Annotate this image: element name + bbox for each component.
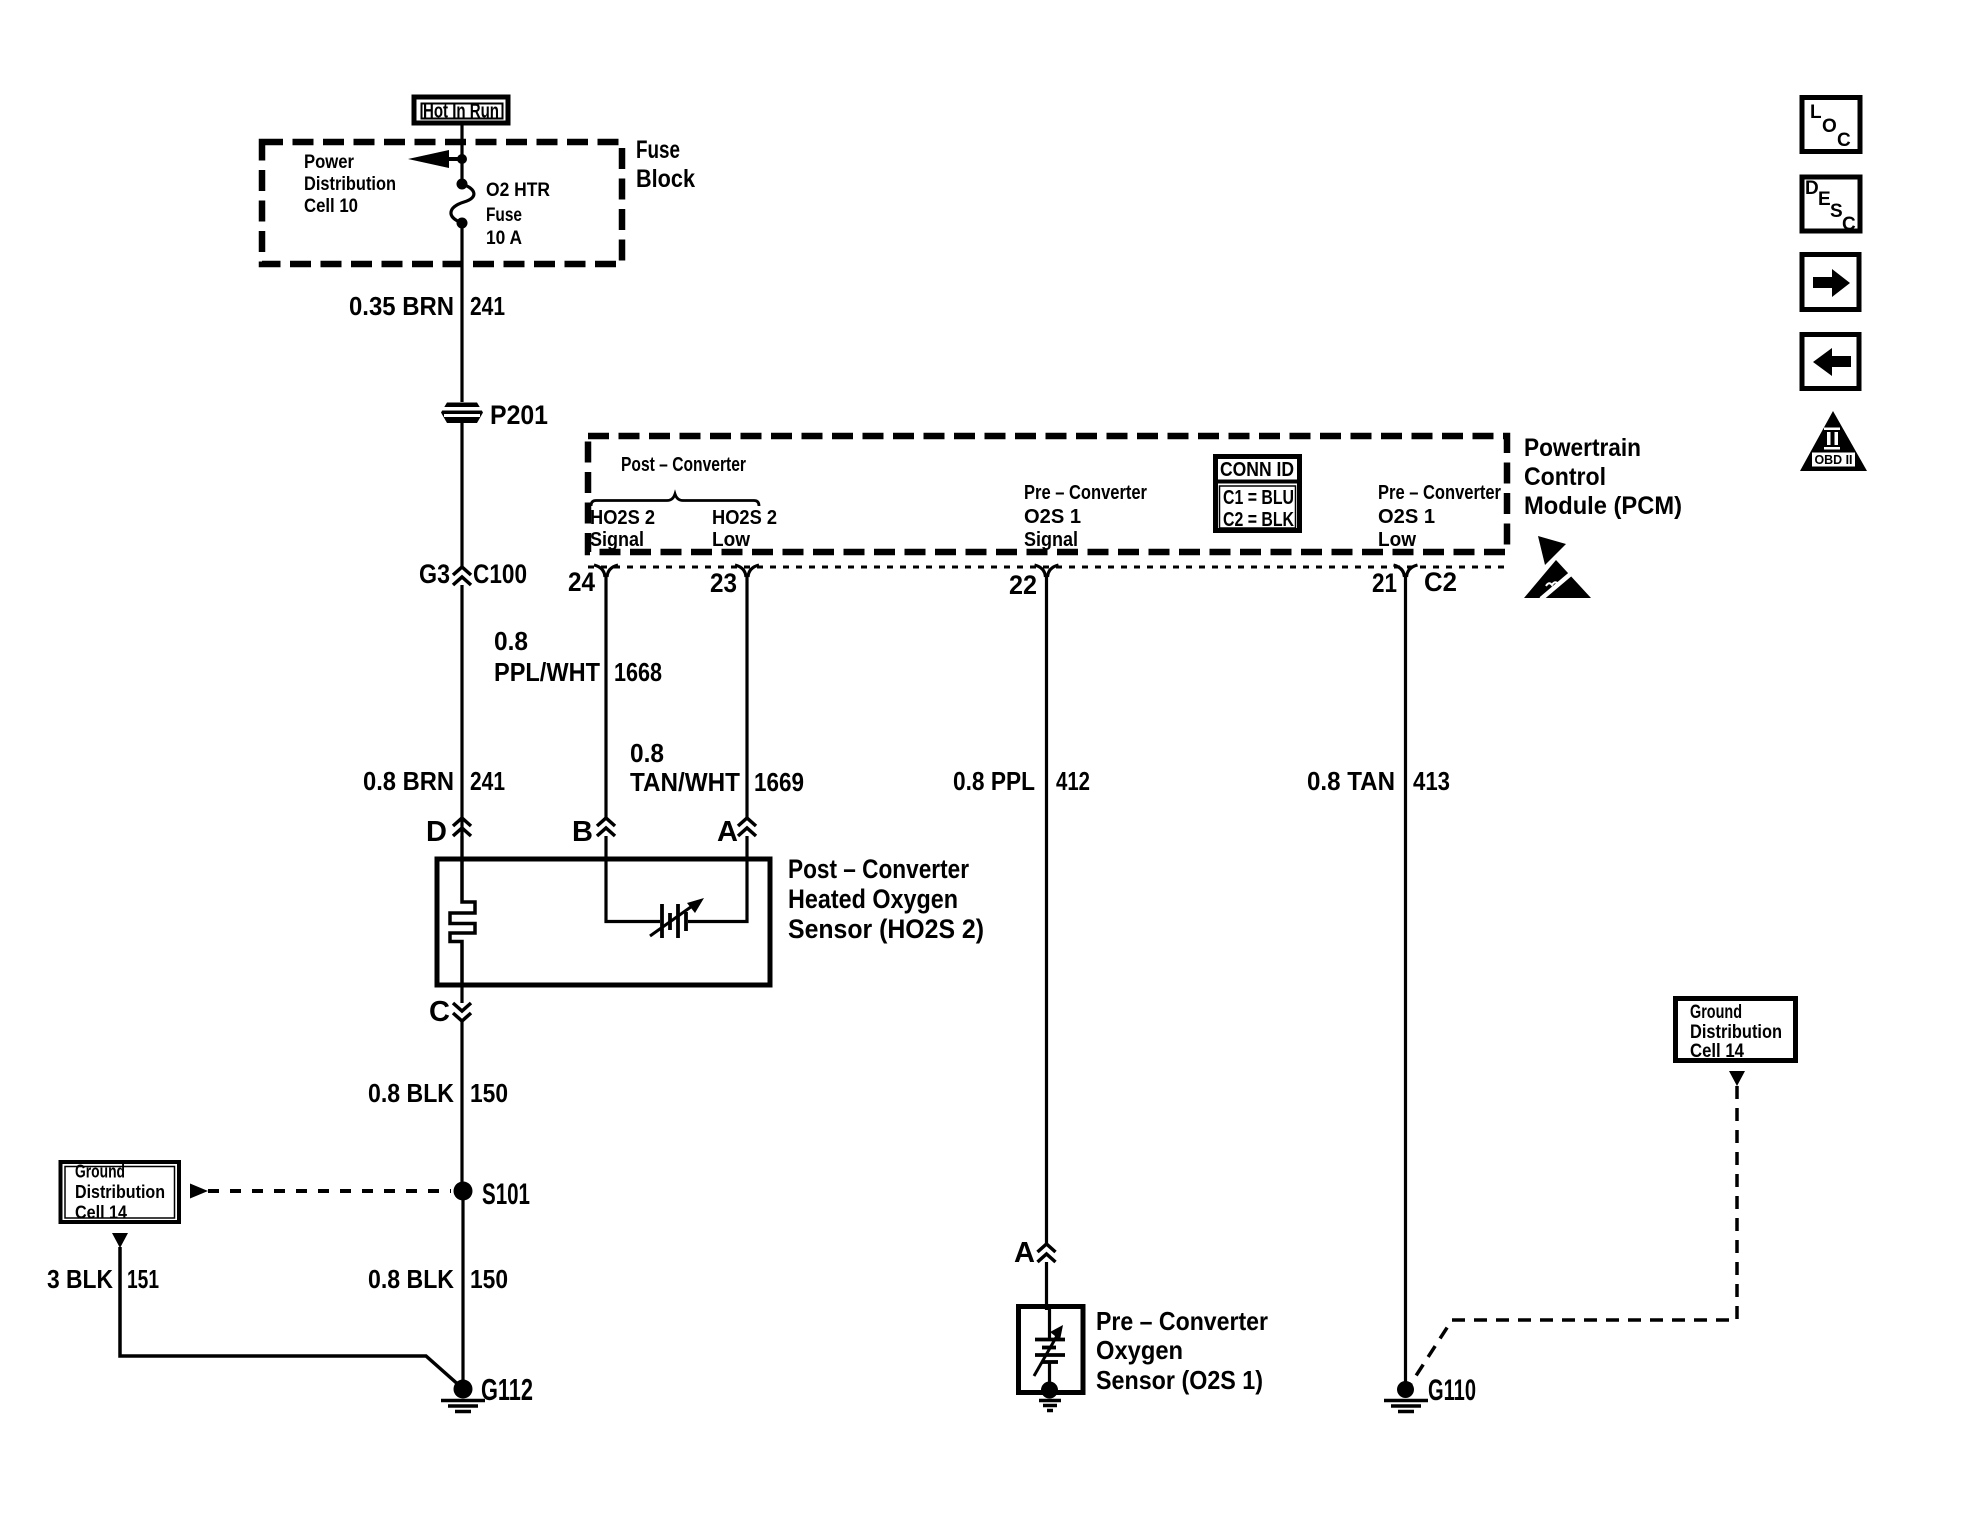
- PCM dashed box: [588, 436, 1507, 552]
- wire 3 BLK 151 to G112: [120, 1247, 461, 1387]
- wire B into box: [604, 836, 607, 862]
- svg-text:Block: Block: [636, 165, 695, 193]
- wire from Hot In Run into fuse block: [460, 124, 463, 184]
- icon DESC box: [1802, 177, 1860, 235]
- sensor element inside HO2S 2: [606, 862, 747, 938]
- svg-text:Low: Low: [1378, 529, 1416, 551]
- svg-text:Distribution: Distribution: [1690, 1022, 1782, 1043]
- down arrow below left cell box: [112, 1233, 128, 1248]
- connector G3 C100: [419, 559, 527, 589]
- svg-text:1669: 1669: [754, 767, 804, 797]
- svg-text:Ground: Ground: [1690, 1002, 1742, 1023]
- svg-text:C100: C100: [473, 559, 527, 589]
- wire C100 to sensor box: [460, 585, 463, 860]
- ground distribution cell 14 box (right): [1676, 999, 1796, 1063]
- ground G112: [441, 1372, 533, 1412]
- wire pin 22 down: [1045, 574, 1048, 1244]
- svg-text:Cell 14: Cell 14: [1690, 1041, 1744, 1062]
- svg-text:Powertrain: Powertrain: [1524, 434, 1641, 462]
- wire pin 24 down: [604, 574, 607, 818]
- svg-text:A: A: [717, 816, 738, 848]
- svg-text:C1 = BLU: C1 = BLU: [1223, 487, 1294, 509]
- svg-text:Cell 14: Cell 14: [75, 1202, 128, 1223]
- svg-text:E: E: [1818, 189, 1831, 210]
- wire C to S101: [460, 985, 463, 1003]
- heater element inside HO2S 2: [450, 859, 475, 985]
- svg-text:G112: G112: [481, 1372, 533, 1407]
- svg-text:Distribution: Distribution: [304, 173, 396, 195]
- svg-text:0.8: 0.8: [630, 738, 664, 768]
- svg-text:412: 412: [1056, 766, 1090, 796]
- svg-text:O2S 1: O2S 1: [1024, 506, 1081, 528]
- svg-text:Heated Oxygen: Heated Oxygen: [788, 884, 958, 914]
- svg-text:Power: Power: [304, 151, 354, 173]
- svg-text:HO2S 2: HO2S 2: [590, 507, 655, 529]
- svg-text:S: S: [1830, 201, 1843, 222]
- svg-text:Sensor (HO2S 2): Sensor (HO2S 2): [788, 914, 984, 944]
- wire pin 23 down: [745, 574, 748, 818]
- connector pin D: [426, 816, 471, 848]
- wire A into box: [745, 836, 748, 862]
- svg-text:PPL/WHT: PPL/WHT: [494, 657, 600, 687]
- svg-text:24: 24: [568, 567, 595, 597]
- svg-text:Module (PCM): Module (PCM): [1524, 492, 1682, 520]
- svg-text:C2: C2: [1424, 567, 1457, 597]
- svg-text:Signal: Signal: [590, 529, 644, 551]
- svg-text:D: D: [426, 816, 447, 848]
- svg-text:A: A: [1014, 1237, 1035, 1269]
- svg-text:0.8 BLK: 0.8 BLK: [368, 1078, 454, 1108]
- sensor element inside O2S 1: [1034, 1306, 1065, 1385]
- connector pin A: [717, 816, 756, 848]
- grommet P201: [441, 400, 548, 430]
- svg-text:151: 151: [127, 1264, 159, 1294]
- dashed reference line to S101: [208, 1189, 451, 1193]
- svg-text:Cell 10: Cell 10: [304, 195, 358, 217]
- svg-text:241: 241: [470, 766, 505, 796]
- svg-text:Post – Converter: Post – Converter: [621, 454, 746, 476]
- svg-text:1668: 1668: [614, 657, 662, 687]
- svg-text:G3: G3: [419, 559, 450, 589]
- svg-text:Fuse: Fuse: [486, 204, 522, 226]
- svg-text:413: 413: [1413, 766, 1450, 796]
- ground at O2S 1: [1039, 1382, 1061, 1411]
- svg-text:0.8: 0.8: [494, 626, 528, 656]
- ground distribution cell 14 box (left): [61, 1161, 180, 1223]
- svg-text:22: 22: [1009, 570, 1037, 600]
- pin 21 connector: [1372, 565, 1418, 598]
- pin 22 connector: [1009, 565, 1059, 600]
- brace under Post-Converter: [591, 494, 759, 506]
- svg-text:0.8 BLK: 0.8 BLK: [368, 1264, 454, 1294]
- svg-text:CONN ID: CONN ID: [1220, 459, 1294, 481]
- pin 23 connector: [710, 565, 759, 598]
- svg-text:HO2S 2: HO2S 2: [712, 507, 777, 529]
- svg-text:Pre – Converter: Pre – Converter: [1378, 482, 1501, 504]
- connector pin A (O2S 1): [1014, 1237, 1055, 1269]
- svg-text:TAN/WHT: TAN/WHT: [630, 767, 740, 797]
- pin 24 connector: [568, 565, 618, 597]
- svg-text:21: 21: [1372, 568, 1397, 598]
- O2S 1 sensor box: [1019, 1307, 1084, 1393]
- svg-text:Low: Low: [712, 529, 750, 551]
- svg-text:10 A: 10 A: [486, 227, 522, 249]
- arrowhead from left cell box: [190, 1184, 208, 1199]
- wire A into O2S 1 box: [1045, 1262, 1048, 1310]
- icon OBD II triangle: [1800, 411, 1867, 471]
- svg-text:0.8 PPL: 0.8 PPL: [953, 766, 1035, 796]
- svg-text:Sensor (O2S 1): Sensor (O2S 1): [1096, 1365, 1263, 1395]
- svg-text:L: L: [1810, 102, 1822, 123]
- svg-text:OBD II: OBD II: [1815, 452, 1853, 467]
- svg-text:0.8 BRN: 0.8 BRN: [363, 766, 454, 796]
- wire pin 21 down to G110: [1404, 574, 1407, 1386]
- HO2S 2 sensor box: [437, 859, 770, 985]
- svg-text:23: 23: [710, 568, 737, 598]
- splice S101: [454, 1178, 531, 1211]
- svg-text:B: B: [572, 816, 593, 848]
- arrow to Power Distribution: [408, 150, 467, 168]
- svg-text:Post – Converter: Post – Converter: [788, 854, 969, 884]
- svg-text:C2 = BLK: C2 = BLK: [1223, 509, 1294, 531]
- icon back arrow box: [1802, 335, 1859, 389]
- wire S101 to G112: [461, 1191, 464, 1389]
- svg-text:O2S 1: O2S 1: [1378, 506, 1435, 528]
- svg-text:P201: P201: [490, 400, 548, 430]
- svg-text:O: O: [1822, 116, 1837, 137]
- fuse block dashed box: [262, 142, 622, 264]
- wire D into box: [460, 836, 463, 862]
- connector pin C: [429, 996, 471, 1028]
- svg-text:Pre – Converter: Pre – Converter: [1096, 1306, 1268, 1336]
- ground G110: [1384, 1374, 1476, 1412]
- svg-text:Oxygen: Oxygen: [1096, 1335, 1183, 1365]
- svg-text:Pre – Converter: Pre – Converter: [1024, 482, 1147, 504]
- svg-text:3 BLK: 3 BLK: [47, 1264, 113, 1294]
- svg-text:C: C: [1837, 130, 1851, 151]
- down arrow below right cell box: [1729, 1071, 1745, 1086]
- dashed reference wire to G110: [1410, 1086, 1737, 1385]
- fuse "O2 HTR Fuse 10 A": [451, 179, 474, 229]
- svg-text:150: 150: [470, 1264, 508, 1294]
- svg-text:Fuse: Fuse: [636, 136, 680, 164]
- wire P201 to C100: [460, 423, 463, 566]
- svg-text:Signal: Signal: [1024, 529, 1078, 551]
- svg-text:D: D: [1805, 178, 1819, 199]
- svg-text:Ground: Ground: [75, 1161, 125, 1182]
- svg-text:S101: S101: [482, 1178, 530, 1211]
- svg-text:G110: G110: [1428, 1374, 1476, 1407]
- wire fuse to P201: [460, 223, 463, 402]
- svg-text:Distribution: Distribution: [75, 1181, 165, 1202]
- connector pin B: [572, 816, 615, 848]
- icon forward arrow box: [1802, 255, 1859, 310]
- icon LOC box: [1802, 98, 1860, 152]
- svg-text:Control: Control: [1524, 463, 1606, 491]
- label box "Hot In Run": [414, 97, 508, 123]
- svg-text:C: C: [1842, 214, 1856, 235]
- svg-text:150: 150: [470, 1078, 508, 1108]
- svg-text:C: C: [429, 996, 450, 1028]
- svg-text:Hot In Run: Hot In Run: [423, 101, 499, 123]
- svg-text:O2 HTR: O2 HTR: [486, 179, 550, 201]
- svg-text:0.35 BRN: 0.35 BRN: [349, 291, 454, 321]
- ESD sensitivity symbol: [1524, 536, 1591, 599]
- connector face dotted line: [588, 566, 1508, 569]
- svg-text:0.8 TAN: 0.8 TAN: [1307, 766, 1395, 796]
- CONN ID table: [1213, 457, 1302, 532]
- svg-text:241: 241: [470, 291, 505, 321]
